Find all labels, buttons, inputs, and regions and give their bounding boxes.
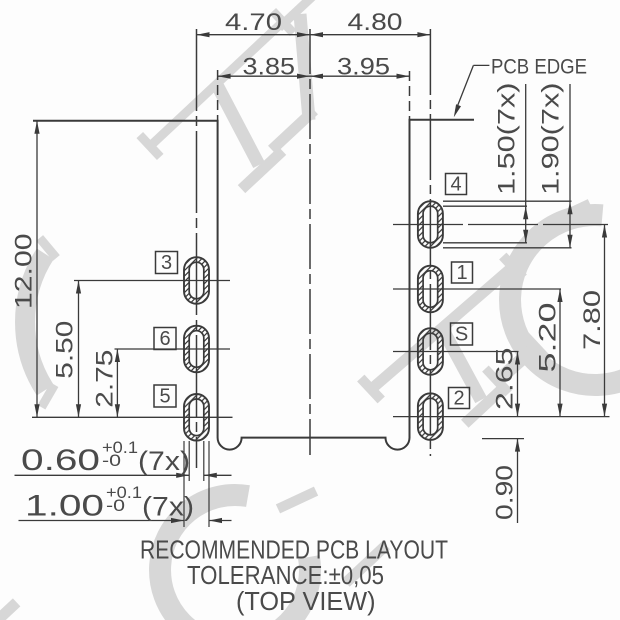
pin label box 1 xyxy=(452,262,473,283)
svg-text:1.50(7x): 1.50(7x) xyxy=(494,83,521,196)
dimension 3.85 / 3.95 line xyxy=(218,75,410,77)
pad 3 (slotted, hatched) xyxy=(183,256,211,306)
dimension 1.00 leader line xyxy=(19,520,185,522)
svg-text:1.00: 1.00 xyxy=(25,490,104,523)
extension lines pad 4 top/bottom and slot top/bottom xyxy=(443,200,572,202)
pin label box 3 xyxy=(156,252,178,274)
dimension 0.90 line xyxy=(517,439,519,523)
dimension 5.50 line xyxy=(78,281,80,418)
svg-text:5.50: 5.50 xyxy=(52,321,79,379)
PCB edge outline (cutout contour) xyxy=(33,120,474,450)
centerline left pad column xyxy=(196,29,198,468)
extension line 3.85 at pcb edge left xyxy=(217,70,219,121)
svg-text:5: 5 xyxy=(159,386,170,408)
svg-text:4.70: 4.70 xyxy=(225,9,282,36)
pin label box 6 xyxy=(154,328,176,350)
PCB EDGE leader arrow xyxy=(473,64,489,66)
svg-text:12.00: 12.00 xyxy=(11,234,38,310)
pad 2 (slotted, hatched) xyxy=(416,392,444,442)
svg-text:PCB EDGE: PCB EDGE xyxy=(491,56,587,79)
row line pad 4 xyxy=(393,224,608,226)
dimension 2.65 line xyxy=(517,352,519,417)
svg-text:6: 6 xyxy=(159,328,170,350)
pad 5 (slotted, hatched) xyxy=(183,392,211,442)
slot width extension lines below pad 5 xyxy=(188,441,190,481)
svg-text:-0: -0 xyxy=(106,496,125,515)
dimension 1.50(7x) line xyxy=(525,84,527,243)
centerline right pad column xyxy=(429,29,431,456)
pad 1 (slotted, hatched) xyxy=(416,264,444,314)
pad width extension lines below pad 5 xyxy=(183,441,185,527)
svg-text:2.65: 2.65 xyxy=(492,348,519,411)
row line pad 1 xyxy=(393,288,561,290)
dimension 2.75 line xyxy=(116,349,118,417)
svg-text:0.90: 0.90 xyxy=(492,465,519,520)
dimension 1.90(7x) line xyxy=(569,84,571,248)
pad 4 (slotted, hatched) xyxy=(416,200,444,250)
row line pad S xyxy=(393,351,519,353)
row line pad 3 xyxy=(74,280,230,282)
svg-text:-0: -0 xyxy=(102,451,121,470)
svg-text:(TOP VIEW): (TOP VIEW) xyxy=(236,586,376,616)
dimension 0.60 leader line xyxy=(15,474,190,476)
dimension 7.80 line xyxy=(604,225,606,417)
svg-text:4: 4 xyxy=(450,174,461,196)
dimension 12.00 line xyxy=(36,121,38,418)
row line pad 5 xyxy=(32,416,233,418)
svg-text:0.60: 0.60 xyxy=(21,444,100,477)
svg-text:1: 1 xyxy=(456,262,467,284)
svg-text:3: 3 xyxy=(161,252,172,274)
svg-text:3.95: 3.95 xyxy=(337,54,390,81)
dimension 5.20 line xyxy=(559,289,561,417)
row line pad 6 xyxy=(115,348,231,350)
svg-text:3.85: 3.85 xyxy=(243,54,296,81)
pad S (slotted, hatched) xyxy=(416,327,444,377)
svg-text:2: 2 xyxy=(453,388,464,410)
svg-text:7.80: 7.80 xyxy=(579,290,606,350)
svg-text:2.75: 2.75 xyxy=(92,350,119,408)
pad 6 (slotted, hatched) xyxy=(183,324,211,374)
svg-text:(7x): (7x) xyxy=(142,492,194,522)
svg-text:4.80: 4.80 xyxy=(348,9,403,36)
extension line bottom edge right xyxy=(482,438,524,440)
centerline vertical middle xyxy=(309,29,311,455)
pin label box 4 xyxy=(446,174,467,195)
svg-text:5.20: 5.20 xyxy=(535,303,562,373)
svg-text:(7x): (7x) xyxy=(138,446,190,476)
svg-text:1.90(7x): 1.90(7x) xyxy=(538,83,565,196)
pin label box 2 xyxy=(449,388,470,409)
svg-text:S: S xyxy=(455,324,468,346)
pin label box 5 xyxy=(154,385,176,407)
dimension 4.70 / 4.80 line xyxy=(197,34,431,36)
row line pad 2 xyxy=(393,416,610,418)
pin label box S xyxy=(451,323,473,345)
extension line 3.95 at pcb edge right xyxy=(409,71,411,121)
